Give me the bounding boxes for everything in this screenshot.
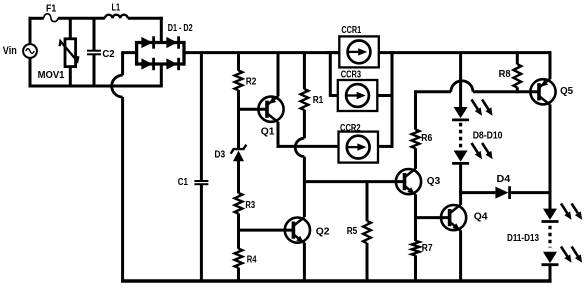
transistor Q3	[396, 169, 421, 194]
wire bridge top feed	[160, 17, 163, 44]
wire C2 bottom lead	[93, 54, 96, 86]
diode D1a	[141, 37, 152, 48]
transistor Q4	[441, 205, 466, 230]
node B wire to Q2 base	[239, 229, 294, 232]
svg-text:R3: R3	[245, 200, 255, 211]
wire node D to D4	[459, 191, 495, 194]
wire Q3 emitter to Q4 base	[416, 216, 449, 219]
svg-text:R2: R2	[246, 76, 257, 87]
wire R6 to Q3 collector	[414, 148, 417, 169]
wire CCR2 output	[378, 145, 393, 148]
wire top rail right	[379, 51, 550, 54]
wire CCR3 feed drop	[330, 53, 338, 97]
svg-text:D4: D4	[497, 174, 511, 185]
wire Q2 emitter to ground rail	[303, 243, 306, 281]
wire bridge DC+ stub	[184, 51, 203, 54]
wire bridge DC- stub	[121, 51, 138, 54]
fuse F1	[44, 14, 59, 22]
svg-text:R1: R1	[313, 95, 324, 106]
resistor R3	[235, 193, 243, 214]
wire D8 string top lead	[459, 53, 462, 108]
wire R1 to node C	[303, 157, 306, 217]
wire CCR1 input	[326, 51, 340, 54]
wire Q4 collector up	[459, 193, 462, 205]
wire R7 bottom lead	[414, 255, 417, 281]
wire D3 to R3	[237, 161, 240, 193]
wire D12 to ground rail	[549, 265, 552, 283]
bridge left bar	[135, 41, 138, 66]
resistor R2	[235, 71, 243, 91]
wire node C to Q3 base	[303, 180, 404, 183]
svg-text:CCR2: CCR2	[340, 123, 361, 134]
wire DC- drop lower	[121, 97, 124, 283]
wire Vin top lead	[29, 17, 32, 45]
wire rail corner to Q5 emitter	[549, 51, 552, 79]
capacitor C2	[87, 51, 101, 55]
LED D8	[454, 107, 468, 118]
diode D4	[495, 186, 509, 199]
transistor Q1	[258, 97, 283, 122]
wire hop over CCR2 input	[295, 138, 304, 156]
resistor R1	[301, 89, 309, 110]
transistor Q5	[530, 79, 555, 104]
wire MOV1 top lead	[69, 18, 72, 39]
svg-text:F1: F1	[46, 3, 56, 14]
wire top after L1	[128, 17, 163, 20]
diode D2b	[166, 58, 177, 69]
wire AC return riser	[160, 63, 163, 87]
wire C2 top lead	[93, 18, 96, 50]
diode D2a	[141, 58, 152, 69]
wire D9 to node D	[459, 163, 462, 194]
light arrows D13	[561, 247, 567, 257]
light arrows D9	[472, 143, 478, 153]
svg-text:Vin: Vin	[3, 45, 17, 57]
wire R8 bottom lead	[516, 87, 519, 93]
wire R6 wire to R8 node	[473, 90, 539, 93]
svg-text:Q4: Q4	[474, 212, 488, 223]
wire CCR output riser	[391, 53, 394, 148]
svg-text:D1 - D2: D1 - D2	[168, 23, 193, 34]
svg-text:CCR1: CCR1	[341, 25, 361, 36]
wire hop over D8 string	[451, 81, 473, 92]
bridge right bar	[182, 41, 185, 66]
resistor R4	[235, 249, 243, 268]
inductor L1	[105, 15, 128, 19]
wire R3 to node B	[237, 214, 240, 249]
AC source Vin	[23, 44, 37, 58]
wire D11 string dashed	[548, 226, 551, 248]
wire C1 bottom lead	[200, 184, 203, 281]
wire R2 to node A	[237, 90, 240, 149]
svg-text:L1: L1	[112, 2, 121, 13]
wire R1 top lead	[303, 53, 306, 90]
svg-text:Q2: Q2	[316, 227, 330, 238]
wire Q4 emitter down	[459, 230, 462, 281]
LED D12	[543, 252, 557, 263]
wire Q1 collector to CCR2	[278, 145, 339, 148]
svg-text:D8-D10: D8-D10	[473, 131, 503, 142]
wire DC- drop upper	[121, 53, 124, 76]
node A wire to Q1 base	[239, 108, 267, 111]
wire Q1 collector down	[277, 122, 280, 148]
svg-text:D3: D3	[215, 150, 226, 161]
svg-text:Q3: Q3	[427, 176, 441, 187]
bridge bottom row	[135, 62, 185, 65]
zener diode D3	[231, 145, 247, 162]
transistor Q2	[285, 218, 310, 243]
svg-text:C2: C2	[102, 49, 114, 60]
resistor R7	[412, 241, 420, 256]
wire AC return	[29, 85, 163, 88]
wire D8 string dashed	[459, 123, 462, 148]
resistor R6	[412, 130, 420, 149]
LED D11	[543, 209, 557, 220]
wire R6 top corner	[414, 90, 451, 129]
svg-text:C1: C1	[178, 177, 188, 188]
svg-text:R8: R8	[499, 69, 511, 80]
svg-text:R7: R7	[422, 243, 433, 254]
wire R2 top lead	[237, 53, 240, 71]
diode D1b	[166, 37, 177, 48]
svg-text:MOV1: MOV1	[38, 70, 65, 81]
CCR regulator CCR2	[339, 132, 379, 163]
wire top rail	[201, 51, 339, 54]
LED D9	[454, 151, 468, 162]
resistor R5	[363, 221, 371, 243]
svg-text:R6: R6	[421, 133, 432, 144]
wire CCR3 output	[377, 94, 393, 97]
wire top rail left	[29, 17, 44, 20]
svg-text:D11-D13: D11-D13	[507, 233, 539, 244]
bridge top row	[135, 41, 185, 44]
wire R1 lower lead	[303, 110, 306, 138]
wire C1 top lead	[200, 53, 203, 181]
svg-text:CCR3: CCR3	[341, 70, 362, 81]
light arrows D11	[561, 204, 567, 214]
wire Q5 collector down	[549, 105, 552, 210]
resistor R8	[513, 64, 521, 87]
CCR regulator CCR1	[339, 36, 379, 67]
wire ground rail	[121, 279, 551, 282]
wire hop over AC return	[112, 75, 123, 97]
wire R8 top lead	[516, 53, 519, 65]
wire R7 top lead	[414, 218, 417, 241]
svg-text:R5: R5	[347, 226, 358, 237]
wire R5 top lead	[366, 182, 369, 222]
wire Q1 emitter to rail	[277, 53, 280, 97]
wire Vin bottom lead	[29, 57, 32, 87]
light arrows D8	[472, 100, 478, 110]
svg-text:Q1: Q1	[261, 127, 275, 138]
varistor MOV1	[60, 39, 79, 67]
svg-text:Q5: Q5	[560, 86, 573, 97]
wire R4 bottom lead	[237, 268, 240, 281]
wire R5 bottom lead	[366, 243, 369, 281]
wire D4 to Q5 collector line	[510, 191, 552, 194]
CCR regulator CCR3	[338, 80, 378, 111]
capacitor C1	[194, 181, 208, 184]
wire MOV1 bottom lead	[69, 67, 72, 86]
svg-text:R4: R4	[247, 254, 257, 265]
wire top after fuse	[58, 17, 105, 20]
wire Q3 emitter down	[414, 194, 417, 219]
